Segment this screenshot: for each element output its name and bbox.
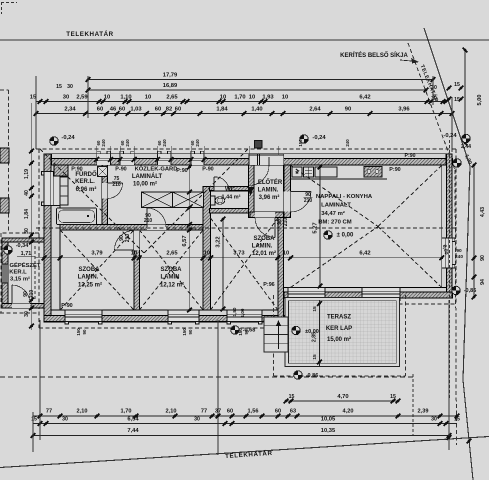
eaves dashed connector	[287, 304, 289, 328]
svg-text:30: 30	[63, 95, 69, 101]
svg-text:±0,00: ±0,00	[305, 329, 319, 335]
svg-text:210: 210	[125, 234, 131, 243]
szoba2 diagonal b	[139, 230, 203, 310]
svg-text:NAPPALI - KONYHA: NAPPALI - KONYHA	[316, 194, 373, 200]
window top wall	[191, 154, 204, 165]
witness bottom left	[39, 320, 41, 440]
szoba3 diagonal b	[211, 218, 278, 310]
elevation marker	[452, 286, 460, 294]
svg-text:3,22: 3,22	[216, 236, 222, 247]
svg-text:2,65: 2,65	[166, 251, 178, 257]
washing machine	[98, 167, 108, 177]
svg-text:2,44: 2,44	[461, 144, 471, 150]
interior dim line v3	[319, 167, 321, 286]
svg-text:-0,86: -0,86	[464, 288, 477, 294]
property line bottom TELEKHATAR	[0, 437, 489, 468]
svg-text:90: 90	[456, 248, 462, 254]
bottom dim rowC	[33, 435, 449, 437]
hip dashed valley	[144, 149, 248, 253]
svg-text:4,70: 4,70	[337, 394, 348, 400]
svg-text:30: 30	[24, 228, 30, 234]
wall exterior right inner leaf	[442, 165, 447, 292]
svg-text:30: 30	[431, 85, 437, 91]
szoba1 door swing	[115, 231, 135, 251]
svg-text:LAMINÁLT: LAMINÁLT	[321, 202, 351, 209]
eaves dashed bottom-right	[288, 303, 456, 305]
dim row1	[88, 79, 433, 81]
svg-text:2,64: 2,64	[309, 107, 321, 113]
wall eloter-nappali	[284, 165, 291, 217]
svg-text:LAMIN.: LAMIN.	[258, 188, 279, 194]
szoba1 door opening	[134, 231, 139, 251]
szoba1 diagonal a	[60, 230, 134, 310]
svg-text:240: 240	[125, 139, 130, 147]
svg-text:210: 210	[283, 218, 289, 227]
terrace dim row	[286, 400, 398, 402]
toilet wc	[211, 196, 216, 205]
svg-text:10: 10	[249, 95, 255, 101]
wall eloter left	[249, 165, 255, 217]
svg-text:LAMIN.: LAMIN.	[252, 244, 273, 250]
svg-text:10: 10	[131, 251, 137, 257]
svg-text:60: 60	[97, 107, 103, 113]
svg-text:5,00: 5,00	[477, 95, 483, 106]
entry arrow mark	[248, 187, 255, 196]
szoba1 diagonal b	[60, 230, 134, 310]
chimney	[255, 141, 263, 149]
bottom dim rowB	[33, 423, 457, 425]
svg-text:SZOBA: SZOBA	[254, 236, 276, 242]
svg-text:4,43: 4,43	[480, 207, 486, 217]
svg-text:90: 90	[345, 107, 351, 113]
svg-text:P-90: P-90	[61, 303, 72, 309]
svg-text:ELŐTÉR: ELŐTÉR	[258, 178, 283, 186]
svg-text:1,03: 1,03	[130, 107, 142, 113]
interior dim line horizontal	[35, 257, 441, 259]
svg-text:4,20: 4,20	[343, 409, 354, 415]
terrace dim vertical	[319, 300, 321, 366]
elevation marker	[4, 246, 12, 254]
wall exterior bottom-right hatch	[284, 292, 453, 298]
svg-text:240: 240	[455, 254, 463, 260]
wall corridor bottom	[60, 225, 203, 231]
wall exterior top hatch	[44, 159, 452, 166]
svg-text:2,10: 2,10	[77, 409, 88, 415]
witness dashed right corner	[449, 140, 451, 400]
svg-text:P:90: P:90	[405, 153, 416, 159]
svg-text:1,19: 1,19	[24, 169, 30, 179]
svg-text:3,15 m²: 3,15 m²	[10, 276, 30, 283]
svg-text:240: 240	[101, 139, 106, 147]
wall gepeszet bottom	[2, 303, 44, 308]
wall stub left b	[0, 198, 9, 213]
wall exterior top outer leaf	[44, 154, 452, 159]
witness bottom right	[448, 300, 450, 450]
svg-text:P:90: P:90	[176, 168, 187, 174]
wall eloter bottom	[250, 212, 284, 217]
svg-text:150: 150	[298, 139, 303, 147]
cabinet furdo	[60, 177, 68, 205]
svg-text:1,56: 1,56	[248, 409, 259, 415]
svg-text:10: 10	[220, 95, 226, 101]
window top wall	[97, 154, 111, 165]
svg-text:6,42: 6,42	[359, 251, 370, 257]
svg-text:16,89: 16,89	[163, 83, 178, 89]
svg-text:46: 46	[110, 107, 117, 113]
wall gepeszet top	[2, 238, 44, 242]
wall wc top	[210, 187, 249, 191]
svg-text:13,25 m²: 13,25 m²	[78, 282, 102, 289]
window bottom szoba2	[168, 310, 199, 322]
window bottom szoba1	[65, 310, 102, 322]
svg-text:30: 30	[67, 84, 73, 90]
svg-text:90: 90	[82, 329, 87, 334]
window bottom szoba3	[227, 310, 262, 322]
wall szoba3-nappali	[278, 213, 284, 321]
szoba3 door opening	[255, 212, 275, 217]
svg-text:10: 10	[283, 251, 289, 257]
interior dim line v1	[189, 167, 191, 309]
elevation marker	[292, 326, 300, 334]
svg-text:15: 15	[56, 84, 62, 90]
svg-text:-0,68: -0,68	[243, 328, 256, 334]
window right wall	[442, 238, 452, 268]
eaves dashed bottom-left	[39, 327, 288, 329]
svg-text:1,84: 1,84	[216, 107, 228, 113]
svg-text:10,05: 10,05	[321, 417, 336, 423]
terrace door nappali	[362, 288, 400, 299]
svg-text:34,47 m²: 34,47 m²	[321, 210, 345, 217]
bottom dim rowA	[33, 415, 457, 417]
svg-text:P-90: P-90	[115, 167, 126, 173]
hip dashed TL	[40, 149, 144, 253]
svg-text:3,96 m²: 3,96 m²	[259, 194, 280, 201]
dim 5.00 right	[464, 50, 466, 143]
terrace grid	[289, 301, 397, 364]
wall exterior bottom-left inner leaf	[51, 310, 284, 316]
elevation marker	[231, 326, 239, 334]
svg-text:TELEKHATÁR: TELEKHATÁR	[66, 31, 113, 38]
dim row3	[36, 101, 446, 103]
sink grid box	[304, 167, 314, 177]
witness line left	[35, 76, 37, 149]
window bottom nappali	[288, 288, 325, 299]
nappali door swing	[291, 192, 312, 213]
dashed neighbor line top	[0, 89, 9, 91]
gepeszet door swing	[12, 285, 30, 303]
svg-text:2,39: 2,39	[418, 409, 429, 415]
furdo door swing	[108, 183, 123, 199]
elevation marker	[462, 134, 470, 142]
svg-text:1,93: 1,93	[262, 95, 274, 101]
svg-text:15,00 m²: 15,00 m²	[327, 336, 351, 343]
svg-text:150: 150	[76, 328, 81, 336]
dim row4	[36, 113, 452, 115]
svg-text:10: 10	[145, 95, 151, 101]
svg-text:1,40: 1,40	[251, 107, 262, 113]
svg-text:6,96 m²: 6,96 m²	[76, 186, 97, 193]
svg-text:2,65: 2,65	[166, 95, 178, 101]
entrance door swing	[268, 157, 270, 165]
wc door swing	[214, 177, 229, 191]
dashed inside gepeszet	[34, 246, 36, 300]
svg-text:12,01 m²: 12,01 m²	[252, 250, 276, 257]
svg-text:LAMINÁLT: LAMINÁLT	[132, 173, 163, 180]
wall furdo-kozlek	[102, 165, 108, 224]
svg-text:10: 10	[104, 95, 110, 101]
svg-text:1,10: 1,10	[120, 95, 131, 101]
szoba3 diagonal a	[211, 218, 278, 310]
ridge dashed line	[36, 227, 456, 229]
svg-text:± 0,00: ± 0,00	[337, 233, 354, 239]
svg-text:77: 77	[201, 409, 207, 415]
dashed fence line right	[408, 43, 455, 170]
wall gepeszet left	[2, 238, 8, 308]
wall exterior left hatch	[44, 154, 51, 322]
svg-text:60: 60	[119, 107, 125, 113]
svg-text:1,44 m²: 1,44 m²	[222, 194, 241, 201]
elevation marker	[300, 135, 308, 143]
terrace dashed left	[273, 295, 275, 376]
eaves dashed right	[455, 149, 457, 304]
stair step	[264, 342, 288, 344]
svg-text:KER.L: KER.L	[9, 270, 27, 276]
elevation marker	[294, 371, 302, 379]
stair step	[264, 325, 288, 327]
svg-text:-0,24: -0,24	[61, 135, 75, 141]
eaves dashed top	[36, 148, 456, 150]
wall exterior left inner leaf	[51, 165, 60, 310]
svg-text:3,96: 3,96	[398, 107, 410, 113]
counter mid boxes	[315, 167, 337, 177]
svg-text:WC: WC	[225, 187, 236, 193]
szoba3 door swing	[255, 217, 275, 237]
left dim chain	[31, 103, 33, 330]
nappali roof diagonal	[291, 227, 379, 288]
pier furdo	[54, 165, 68, 176]
elevation marker	[453, 159, 461, 167]
dim row2	[88, 89, 426, 91]
svg-text:15: 15	[390, 394, 396, 400]
svg-text:6,42: 6,42	[359, 95, 370, 101]
svg-text:P:96: P:96	[263, 282, 274, 288]
wall exterior bottom-right inner leaf	[284, 288, 447, 293]
wc door opening	[214, 187, 229, 191]
utility line to boundary	[217, 320, 219, 455]
wardrobe gardrob	[142, 192, 204, 207]
hob hatch	[364, 167, 382, 178]
svg-text:TERASZ: TERASZ	[327, 315, 351, 321]
nappali roof diagonal	[378, 165, 442, 226]
dashed neighbor line left	[8, 90, 10, 233]
svg-text:-0,86: -0,86	[306, 373, 319, 379]
svg-text:60: 60	[227, 409, 233, 415]
wall wc-szoba23	[203, 187, 211, 310]
svg-text:LAMIN.: LAMIN.	[78, 275, 99, 281]
svg-text:60: 60	[155, 107, 161, 113]
svg-text:-0,24: -0,24	[312, 135, 326, 141]
elevation marker	[50, 137, 58, 145]
nappali door opening	[284, 192, 291, 212]
terrace outer box	[285, 297, 400, 366]
svg-text:3,79: 3,79	[91, 251, 103, 257]
gepeszet door opening	[12, 303, 30, 308]
furdo door opening	[102, 183, 108, 199]
svg-text:15: 15	[312, 306, 318, 312]
terrace dashed right	[405, 295, 407, 376]
wall szoba1-szoba2	[134, 230, 139, 310]
svg-text:30: 30	[431, 417, 437, 423]
bathtub	[57, 208, 97, 225]
svg-text:1,50: 1,50	[232, 307, 237, 316]
szoba2 door swing	[147, 208, 166, 227]
property line right diagonal seg2	[463, 166, 470, 380]
svg-text:GÉPÉSZET: GÉPÉSZET	[10, 261, 41, 269]
dashed fence line right v	[455, 170, 457, 445]
svg-text:1,71: 1,71	[21, 251, 32, 257]
svg-text:1,84: 1,84	[24, 209, 30, 219]
svg-text:210: 210	[112, 182, 121, 188]
arrow to fence	[400, 60, 417, 62]
nappali roof diagonal	[291, 165, 379, 226]
svg-text:17,79: 17,79	[163, 73, 178, 79]
svg-text:KER.L.: KER.L.	[75, 179, 95, 185]
svg-text:P-90: P-90	[202, 167, 213, 173]
svg-text:60: 60	[175, 107, 181, 113]
svg-text:30: 30	[431, 96, 437, 102]
stairs arrow	[278, 323, 280, 349]
svg-text:3,73: 3,73	[233, 251, 245, 257]
svg-text:12,12 m²: 12,12 m²	[160, 282, 184, 289]
svg-text:2,59: 2,59	[76, 95, 88, 101]
svg-text:1,70: 1,70	[121, 409, 132, 415]
svg-text:240: 240	[162, 139, 167, 147]
dashed corner mark top-left v	[1, 2, 3, 14]
svg-text:7,44: 7,44	[127, 428, 139, 434]
wall wc bottom	[210, 209, 249, 213]
terrace dashed bottom	[274, 375, 406, 377]
svg-text:-0,24: -0,24	[443, 133, 457, 139]
window left wall	[44, 172, 60, 206]
svg-text:210: 210	[144, 218, 153, 224]
witness r1 end	[432, 76, 434, 105]
svg-text:KERÍTÉS BELSŐ SÍKJA: KERÍTÉS BELSŐ SÍKJA	[340, 51, 408, 59]
svg-text:10: 10	[282, 95, 288, 101]
svg-text:P:90: P:90	[71, 167, 82, 173]
svg-text:15: 15	[289, 394, 295, 400]
svg-text:15: 15	[31, 417, 37, 423]
svg-text:LAMIN: LAMIN	[161, 275, 180, 281]
svg-text:KER LAP: KER LAP	[326, 326, 352, 332]
svg-text:6,57: 6,57	[182, 235, 188, 246]
kitchen counter line	[291, 178, 388, 180]
svg-text:10,35: 10,35	[321, 428, 336, 434]
svg-text:BM: 270 CM: BM: 270 CM	[318, 220, 351, 226]
elevation marker	[324, 231, 332, 239]
svg-text:63: 63	[290, 409, 296, 415]
svg-text:90: 90	[188, 329, 193, 334]
svg-text:30: 30	[24, 311, 30, 317]
svg-text:37: 37	[215, 409, 221, 415]
svg-text:10: 10	[204, 251, 210, 257]
svg-text:1,00: 1,00	[240, 308, 245, 317]
svg-text:94: 94	[480, 279, 486, 285]
svg-text:82: 82	[166, 107, 172, 113]
window top wall	[120, 154, 134, 165]
svg-text:1,70: 1,70	[234, 95, 245, 101]
window top wall	[158, 154, 172, 165]
svg-text:15: 15	[312, 354, 318, 360]
svg-text:SZOBA: SZOBA	[161, 267, 183, 273]
svg-text:SZOBA: SZOBA	[79, 267, 101, 273]
svg-text:30: 30	[194, 417, 200, 423]
svg-text:10,00 m²: 10,00 m²	[133, 181, 157, 188]
witness right	[451, 97, 453, 152]
setback dashed line	[0, 376, 413, 378]
svg-text:40: 40	[24, 190, 30, 196]
nappali roof diagonal	[378, 227, 442, 288]
witness dashed terrace right	[412, 374, 414, 436]
svg-text:60: 60	[275, 409, 281, 415]
svg-text:15: 15	[454, 417, 460, 423]
szoba2 diagonal a	[139, 230, 203, 310]
svg-text:210: 210	[29, 290, 35, 299]
svg-text:240: 240	[195, 139, 200, 147]
svg-text:30: 30	[62, 417, 68, 423]
szoba2 door opening	[147, 225, 166, 231]
wall stub left a	[0, 148, 9, 163]
interior dim line v2	[222, 219, 224, 309]
property line right diagonal seg3	[463, 380, 473, 480]
wall exterior right hatch	[446, 154, 452, 298]
svg-text:KÖZLEK-GARD: KÖZLEK-GARD	[135, 166, 178, 173]
svg-text:77: 77	[46, 409, 52, 415]
appliance star box	[292, 167, 302, 177]
stairs	[264, 317, 288, 352]
witness line x88	[87, 76, 89, 118]
property line right diagonal seg1	[424, 28, 470, 166]
dashed corner mark top-left h	[1, 2, 17, 4]
svg-text:90: 90	[480, 255, 486, 261]
svg-text:15: 15	[454, 82, 460, 88]
eaves dashed left	[38, 149, 40, 328]
svg-text:210: 210	[304, 198, 313, 204]
svg-text:2,10: 2,10	[166, 409, 177, 415]
svg-text:2,34: 2,34	[64, 107, 76, 113]
svg-text:-0,34: -0,34	[16, 243, 29, 249]
property line top TELEKHATAR	[0, 39, 489, 41]
svg-text:6,54: 6,54	[127, 417, 139, 423]
entrance opening	[249, 154, 284, 165]
door gepeszet left	[2, 264, 8, 283]
eaves around gepeszet	[0, 233, 39, 313]
svg-text:P:90: P:90	[389, 167, 400, 173]
svg-text:150: 150	[182, 328, 187, 336]
stair step	[264, 333, 288, 335]
svg-text:240: 240	[345, 139, 350, 147]
wall exterior bottom-left hatch	[44, 316, 284, 322]
eaves dashed gepeszet left	[0, 233, 2, 313]
right outer dim line	[473, 165, 475, 297]
